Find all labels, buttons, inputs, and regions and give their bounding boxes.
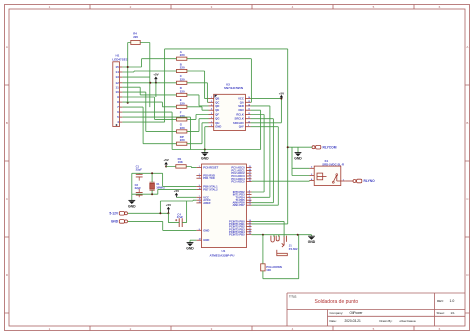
svg-text:16: 16 [249,225,251,227]
svg-text:4: 4 [249,190,250,193]
svg-text:10K: 10K [178,160,184,164]
svg-text:21: 21 [199,201,201,203]
capacitor C2 22pF [135,183,143,197]
wire +5V to VCC [176,196,196,198]
svg-text:11: 11 [248,117,250,119]
wire gnd stem U3 [204,150,206,153]
svg-text:RLYCOM: RLYCOM [323,145,337,149]
junction +5V segment bus b [155,82,157,84]
svg-text:9: 9 [199,185,200,187]
svg-text:J1: J1 [289,243,292,247]
svg-text:B: B [6,121,8,125]
svg-text:RCLK: RCLK [236,112,244,116]
wire 5-12V input [128,201,169,213]
svg-text:SRCLK: SRCLK [235,117,244,121]
wire H1 pin14 to resistor B [122,71,176,72]
svg-text:47uF: 47uF [177,215,184,219]
wire resistor C to U3 QC [187,83,209,103]
svg-text:GND: GND [203,238,209,242]
wire C4 connections [168,201,186,223]
resistor PULLDOWN 10K [261,264,265,271]
capacitor C4 47uF [175,212,183,227]
svg-text:15: 15 [248,101,250,103]
svg-text:GND: GND [308,240,316,244]
svg-text:16: 16 [248,97,250,99]
svg-text:1.0: 1.0 [450,299,455,303]
svg-text:AREF: AREF [203,201,211,205]
svg-text:10: 10 [115,90,119,94]
svg-text:SRD-5VDC-SL-R: SRD-5VDC-SL-R [322,162,344,166]
svg-text:PJ-602: PJ-602 [289,247,298,251]
microcontroller U1 ATMEGA328P-PU [196,164,251,258]
svg-text:Soldadora de punto: Soldadora de punto [315,299,359,305]
svg-text:14: 14 [248,103,250,106]
svg-text:27: 27 [249,177,251,179]
svg-text:PD1 TXD: PD1 TXD [203,176,214,180]
wire U1 PB1 to relay common net [252,223,288,225]
svg-text:220: 220 [180,66,185,70]
wire R4 right drop [140,43,150,108]
junction r1 +5v [165,166,167,168]
svg-text:13: 13 [248,109,250,111]
svg-text:11: 11 [116,85,120,89]
wire +5V commons drop [155,83,157,97]
wire U1 GND22 down [190,240,196,242]
svg-text:5: 5 [211,113,212,115]
resistor R_DP 220 [177,135,187,145]
svg-text:Drawn By:: Drawn By: [380,319,393,323]
wire U1 PC5 to relay pin4 [252,180,310,183]
junction xtal top [151,172,153,174]
wire U3 RCLK to U1 INT0 [251,115,265,193]
wire H1 pin15 to R4/A net [122,43,141,103]
wire gnd rail under U3 [172,110,261,149]
DC power jack J1 PJ-602 [271,236,298,256]
wire H1 pin7 to resistor DP [122,107,176,144]
svg-text:GND: GND [201,157,209,161]
wire resistor F to U3 QF [187,115,209,120]
svg-text:Sheet:: Sheet: [437,311,445,315]
svg-text:14: 14 [115,70,119,74]
wire U3 SER to U1 T0 [251,106,270,197]
svg-text:PCINT5 PB5: PCINT5 PB5 [229,232,245,236]
wire U1 PB5 gnd row [252,235,312,237]
+5V at U3 [279,91,284,98]
svg-text:AIN1 PD7: AIN1 PD7 [232,203,245,207]
svg-text:13: 13 [249,204,251,206]
svg-text:+5V: +5V [153,72,158,76]
svg-text:10: 10 [248,121,250,123]
svg-text:13: 13 [115,75,119,79]
wire resistor DP to U3 QH [187,123,209,144]
wire H1 pin11 to resistor D [122,87,176,95]
flag 5-12V [109,212,127,216]
resistor R_D 220 [177,86,187,96]
wire AVCC feed [160,199,196,202]
svg-text:OliPower: OliPower [350,311,364,315]
svg-text:+5V: +5V [279,91,284,95]
svg-text:Date:: Date: [330,319,337,323]
wire H1 pin12 to resistor C [122,82,176,84]
svg-text:22: 22 [199,239,201,241]
wire GND input to U1 [128,221,197,230]
svg-text:9: 9 [248,125,249,127]
svg-text:RLYNO: RLYNO [364,179,376,183]
svg-text:6: 6 [117,110,119,114]
svg-text:8: 8 [117,100,119,104]
svg-text:GND: GND [215,125,221,129]
svg-text:5-12V: 5-12V [109,212,119,216]
wire resistor B to U3 QB [187,71,209,99]
ground crystal [128,200,136,208]
svg-text:4: 4 [211,108,212,111]
svg-text:2020-03-21: 2020-03-21 [345,319,362,323]
wire U3 SRCLK to U1 AIN0 [251,119,274,203]
svg-text:QH: QH [215,121,219,125]
svg-text:12: 12 [115,81,119,85]
svg-text:PC6 RESET: PC6 RESET [203,166,218,170]
+5V at R1 [163,158,168,167]
wire resistor A left [142,58,177,60]
svg-text:TITLE:: TITLE: [289,295,297,299]
svg-text:3: 3 [211,104,212,106]
svg-text:QE: QE [215,108,219,112]
svg-text:28: 28 [249,180,251,182]
wire R1 reset [166,167,196,168]
relay K1 SRD-5VDC-SL-R [309,159,346,186]
resistor R4 [131,32,140,45]
wire resistor G to U3 QG [187,119,209,132]
ground U1 pin22 [186,243,194,251]
junction U3 VCC +5V [280,98,282,100]
svg-text:GND: GND [186,247,194,251]
wire H1 pin5 to gnd rail [122,117,190,149]
svg-text:1: 1 [211,97,212,99]
svg-text:2: 2 [211,101,212,103]
resistor R_C 220 [177,74,187,84]
svg-text:REV:: REV: [437,299,444,303]
wire crystal rails [132,173,197,200]
wire H1 pin9 to resistor F [122,97,176,119]
+5V display commons [153,72,158,83]
svg-text:10: 10 [199,188,201,190]
svg-text:23: 23 [249,166,251,168]
wire pulldown loop [263,235,299,279]
junction xtal bottom [151,193,153,195]
svg-text:7: 7 [199,196,200,198]
svg-text:15: 15 [115,65,119,69]
svg-text:20: 20 [199,199,201,201]
svg-text:1: 1 [199,166,200,168]
crystal X1 16MHZ [150,182,166,190]
svg-text:QC: QC [215,100,219,104]
svg-text:QD: QD [215,104,219,108]
svg-text:+5V: +5V [166,203,171,207]
svg-text:7: 7 [117,105,119,109]
svg-text:5: 5 [249,193,250,195]
svg-text:220: 220 [180,77,185,81]
svg-text:220: 220 [180,126,185,130]
wire relay common net [288,147,312,175]
resistor R_G 220 [177,123,187,133]
svg-text:12: 12 [248,113,250,115]
svg-text:7: 7 [211,121,212,123]
svg-text:B: B [466,121,468,125]
svg-text:A: A [6,45,8,49]
svg-text:oliver.basoa: oliver.basoa [400,319,416,323]
shift register U3 SN74HC595N [209,82,251,130]
svg-text:QA: QA [240,100,244,104]
ground at jack [308,236,316,244]
svg-text:PC5 ADC5: PC5 ADC5 [231,180,245,184]
wire relay pin1 to RLYNO [346,180,353,182]
svg-text:QB: QB [215,97,219,101]
svg-text:22pF: 22pF [136,167,143,171]
junction jack gnd [297,234,299,236]
svg-text:QF: QF [215,112,219,116]
svg-text:3: 3 [199,177,200,179]
resistor R1 10K [176,157,186,168]
svg-text:26: 26 [249,175,251,177]
resistor R_B 220 [177,62,187,72]
svg-text:QG: QG [215,117,219,121]
ground at relay [294,153,302,161]
svg-text:VCC: VCC [238,97,244,101]
wire H1 pin4 to gnd rail [122,121,164,123]
svg-text:6: 6 [249,196,250,198]
resistor R_A 220 [177,50,187,60]
+5V at VCC [174,189,179,197]
title block [287,293,465,326]
svg-text:1/1: 1/1 [451,311,456,315]
junction 5V riser [159,212,161,214]
svg-text:GND: GND [294,157,302,161]
connector H1 LED47SEG [112,53,128,126]
svg-text:U1: U1 [222,249,226,253]
ground under U3 [201,153,209,161]
wire resistor D to U3 QD [187,95,209,106]
svg-text:8: 8 [199,229,200,231]
wire H1 pin8 to resistor E [122,102,176,107]
svg-text:GND: GND [203,228,209,232]
svg-text:Company:: Company: [330,311,344,315]
svg-text:220: 220 [180,101,185,105]
svg-text:LED47SEG: LED47SEG [112,58,128,62]
svg-text:25: 25 [249,172,251,174]
flag RLYCOM [312,145,337,149]
junction pin8 net [127,102,129,104]
wire crystal stubs [151,173,153,194]
svg-text:2: 2 [199,174,200,176]
flag RLYNO [353,179,375,183]
label PULLDOWN 10K [266,265,282,272]
svg-text:220: 220 [180,138,185,142]
wire jack pins up [274,235,279,237]
svg-text:+5V: +5V [163,158,168,162]
svg-text:5: 5 [117,115,119,119]
svg-text:6: 6 [211,117,212,119]
junction relay common [287,146,289,148]
flag GND input [111,220,128,224]
wire H1 pin6 to gnd rail [122,112,172,149]
junction c4 +5v [167,212,169,214]
svg-text:9: 9 [117,95,119,99]
wire H1 pin13 stub [122,76,149,78]
svg-text:SER: SER [238,104,244,108]
svg-text:OE#: OE# [238,108,244,112]
svg-text:PB7 XTAL2: PB7 XTAL2 [203,187,218,191]
wire resistor A to U3 QA [187,59,252,103]
svg-text:8: 8 [211,125,212,127]
svg-text:10K: 10K [266,268,271,272]
resistor R_F 220 [177,111,187,121]
junction pin15/R4 [127,66,129,68]
svg-text:19: 19 [249,233,251,235]
junction pulldown top [262,234,264,236]
wire U3 QH* to U1 AIN1 [251,127,279,206]
junction +5V segment bus a [149,82,151,84]
svg-text:16MHZ: 16MHZ [156,185,165,189]
wire top segment-A bus to relay common [165,49,288,224]
svg-text:GND: GND [128,204,136,208]
wire U3 VCC to +5V and SRCLR# [251,99,282,123]
svg-text:SN74HC595N: SN74HC595N [224,86,243,90]
svg-text:220: 220 [180,53,185,57]
svg-text:SRCLR#: SRCLR# [233,121,244,125]
capacitor C1 22pF [136,165,143,181]
svg-text:GND: GND [111,220,119,224]
wire resistor E to U3 QE [187,107,209,110]
wire H1 pin10 to resistor G [122,92,176,131]
junction gnd rail [204,149,206,151]
resistor R_E 220 [177,98,187,108]
svg-text:22pF: 22pF [135,186,142,190]
svg-text:ATMEGA328P-PU: ATMEGA328P-PU [210,254,235,258]
svg-text:220: 220 [133,35,138,39]
svg-text:24: 24 [249,168,251,171]
wire U1 PB0 to jack [252,221,285,236]
+5V at input [166,203,171,213]
svg-text:220: 220 [180,89,185,93]
svg-text:A: A [466,45,468,49]
svg-text:4: 4 [117,120,119,124]
